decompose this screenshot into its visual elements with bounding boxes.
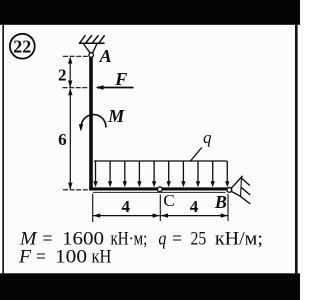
svg-text:q: q (158, 229, 166, 249)
svg-text:6: 6 (58, 130, 67, 149)
svg-text:25: 25 (191, 229, 207, 249)
svg-text:2: 2 (58, 65, 67, 84)
svg-text:F: F (114, 69, 127, 89)
svg-text:=: = (43, 229, 53, 249)
svg-text:4: 4 (122, 197, 131, 216)
svg-text:22: 22 (13, 36, 31, 56)
svg-text:4: 4 (190, 197, 199, 216)
svg-text:M: M (107, 106, 125, 126)
svg-text:1600: 1600 (62, 229, 104, 249)
svg-text:B: B (214, 192, 227, 212)
svg-text:A: A (99, 46, 112, 66)
svg-text:кН: кН (92, 248, 112, 268)
svg-text:100: 100 (55, 248, 87, 268)
svg-text:M: M (19, 229, 38, 249)
svg-text:C: C (163, 191, 174, 210)
svg-text:=: = (172, 229, 182, 249)
svg-text:кН/м;: кН/м; (215, 229, 263, 249)
svg-text:q: q (203, 128, 212, 147)
svg-text:=: = (36, 248, 46, 268)
svg-text:F: F (18, 248, 32, 268)
svg-text:кН·м;: кН·м; (111, 229, 148, 249)
